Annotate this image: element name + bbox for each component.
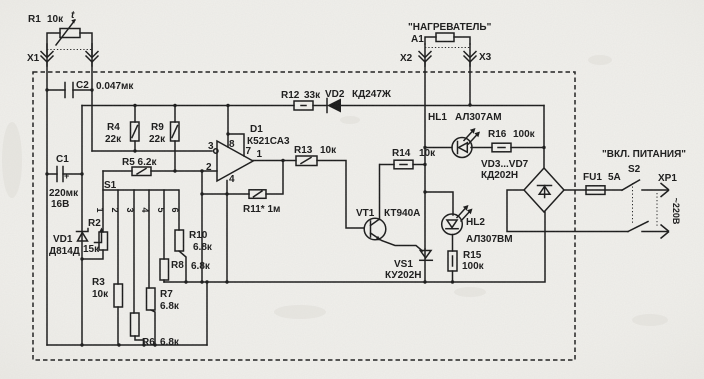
resistor R2 (preset) <box>80 171 107 261</box>
wire pin2 node down <box>200 171 203 284</box>
transistor VT1 <box>356 165 423 252</box>
connector X3 <box>425 44 492 66</box>
resistor R11 feedback <box>202 159 285 215</box>
heater A1 <box>408 22 492 45</box>
connector X1 <box>27 44 99 66</box>
resistor R6 <box>131 190 180 348</box>
border dashed enclosure <box>33 72 575 360</box>
capacitor C2 <box>45 80 134 98</box>
resistor R13 <box>253 145 364 228</box>
op-amp D1 <box>206 106 290 186</box>
plug XP1 <box>642 173 681 239</box>
wire bridge left AC corner to S2 lower contact <box>507 190 628 232</box>
wire top supply bus <box>82 103 544 107</box>
wire sensor node to pin3 <box>92 150 212 152</box>
resistor R10 <box>175 190 213 284</box>
wire common bus lower-right <box>164 212 545 282</box>
wire bottom bus <box>47 343 207 346</box>
wire X1 left vertical down to bottom bus <box>46 62 48 345</box>
resistor R5 <box>103 157 217 176</box>
wire op-amp pin4 to common <box>226 181 228 283</box>
wire common riser to bottom bus <box>205 280 228 345</box>
resistor R16 <box>471 129 546 152</box>
resistor R12 <box>281 90 321 110</box>
resistor R9 <box>149 106 179 173</box>
LED HL2 <box>425 192 513 245</box>
wire X3 down to supply bus <box>469 62 471 105</box>
resistor R4 <box>105 106 139 153</box>
thyristor VS1 <box>385 249 432 284</box>
resistor R14 <box>380 148 436 169</box>
fuse FU1 <box>564 172 622 194</box>
resistor R1 (thermistor) <box>28 10 92 55</box>
wire X2 anode line down to VS1 <box>423 62 426 249</box>
connector X2 <box>400 44 432 66</box>
switch S1 <box>95 180 180 213</box>
wire X1 right vertical down to pin3 wire <box>91 62 93 151</box>
diode VD2 <box>325 89 392 113</box>
LED HL1 <box>425 112 502 158</box>
bridge rectifier VD3...VD7 <box>481 106 564 213</box>
switch S2 <box>602 149 686 232</box>
resistor R15 <box>448 235 485 284</box>
resistor R7 <box>147 190 180 347</box>
wire left reference rail x=82 <box>81 106 83 346</box>
zener VD1 <box>49 229 88 258</box>
capacitor C1 <box>45 154 83 210</box>
resistor R3 <box>92 190 123 347</box>
resistor R8 <box>160 190 211 282</box>
